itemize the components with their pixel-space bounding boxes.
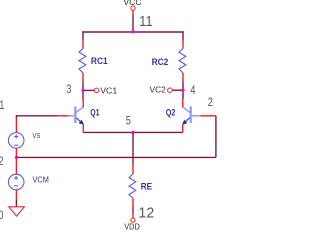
svg-text:Q1: Q1 <box>90 108 100 118</box>
svg-text:3: 3 <box>66 83 71 96</box>
svg-text:12: 12 <box>138 205 154 221</box>
junction dot node 11 <box>131 30 134 33</box>
voltage probe VC2 <box>168 88 182 93</box>
transistor Q2 <box>182 99 216 133</box>
junction dot node 3 <box>81 89 84 92</box>
svg-text:VC1: VC1 <box>100 86 117 96</box>
svg-text:VS: VS <box>32 132 40 140</box>
svg-text:RC1: RC1 <box>91 56 108 66</box>
voltage probe VC1 <box>84 88 99 93</box>
junction dot node 2 left <box>15 156 18 159</box>
power symbol VDD <box>131 213 135 222</box>
wire node 1 horizontal <box>16 115 57 117</box>
power symbol VCC <box>131 6 135 14</box>
wire node 2 bus <box>16 156 216 158</box>
transistor Q1 <box>57 99 84 133</box>
svg-text:VC2: VC2 <box>150 86 167 95</box>
wire node 1 corner down <box>15 115 17 118</box>
junction dot node 5 <box>131 131 134 134</box>
svg-text:VDD: VDD <box>124 222 140 232</box>
emitter bus wire node 5 <box>83 131 182 133</box>
resistor RE <box>129 165 136 207</box>
source VCM <box>8 158 24 200</box>
svg-text:0: 0 <box>0 209 3 222</box>
resistor RC1 <box>79 41 86 82</box>
wire node 2 right riser <box>215 116 217 158</box>
svg-text:2: 2 <box>208 96 213 109</box>
wire RC2 to Q2 collector <box>182 82 184 100</box>
resistor RC2 <box>179 41 186 82</box>
svg-text:4: 4 <box>190 84 195 97</box>
svg-text:RE: RE <box>141 181 153 191</box>
wire VCM to ground <box>15 200 17 207</box>
svg-text:VCC: VCC <box>123 0 141 7</box>
svg-text:1: 1 <box>0 99 4 112</box>
svg-text:VCM: VCM <box>33 175 49 184</box>
source VS <box>8 118 24 157</box>
svg-text:2: 2 <box>0 155 4 168</box>
ground <box>9 207 25 216</box>
wire RC1 to Q1 collector <box>82 82 84 100</box>
svg-text:RC2: RC2 <box>152 57 169 67</box>
wire bus to RC2 <box>182 31 184 40</box>
svg-text:5: 5 <box>126 114 131 127</box>
svg-text:11: 11 <box>139 14 153 30</box>
wire bus to RC1 <box>82 31 84 40</box>
top bus wire node 11 <box>82 31 183 33</box>
wire node 5 to RE <box>132 132 134 164</box>
wire RE to VDD <box>132 206 134 213</box>
wire VCC stem <box>132 14 134 32</box>
junction dot node 4 <box>181 89 184 92</box>
svg-text:Q2: Q2 <box>166 108 176 118</box>
